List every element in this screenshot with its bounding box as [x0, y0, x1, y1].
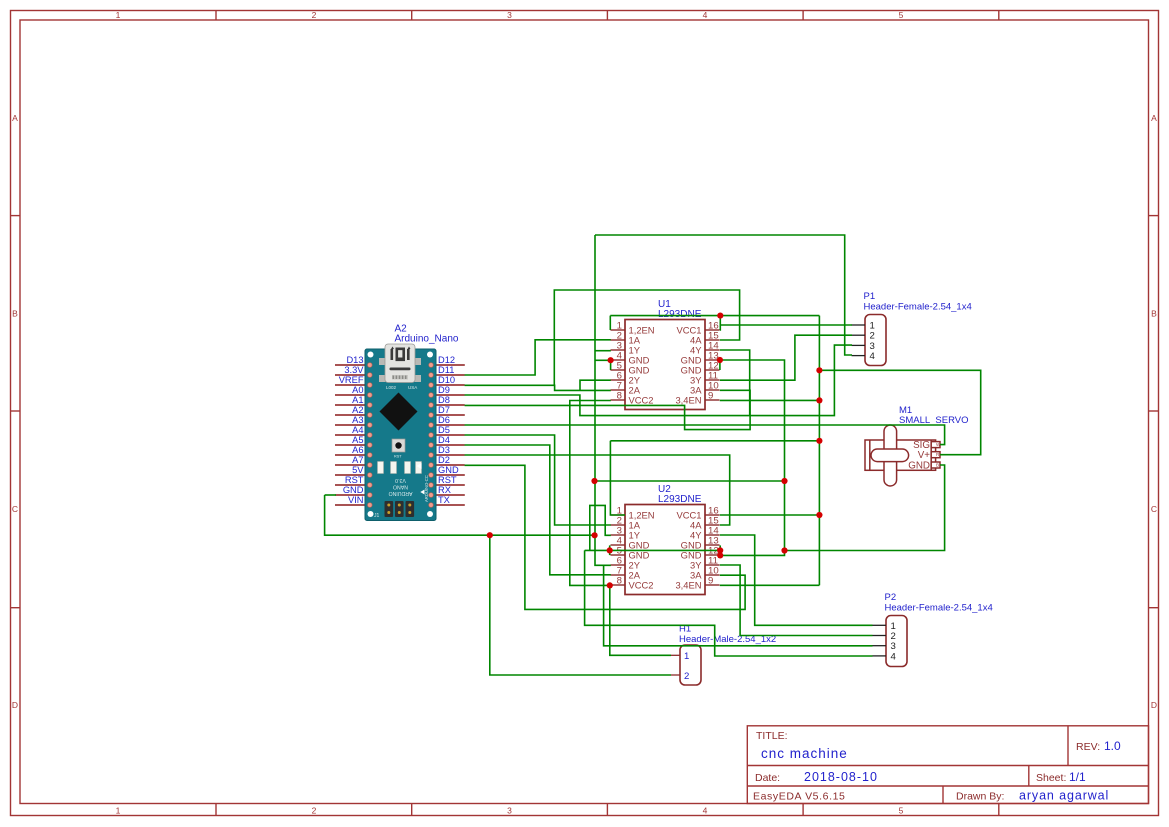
wire U2.13-12 bridge [719, 545, 721, 555]
wire H1.2 drop [490, 535, 671, 675]
wire bus315 [610, 315, 819, 317]
svg-text:V3.0: V3.0 [395, 477, 406, 483]
svg-text:5: 5 [899, 806, 904, 816]
svg-text:P2: P2 [885, 592, 897, 603]
svg-text:3: 3 [507, 10, 512, 20]
wire D9 riser [465, 345, 852, 416]
connector H1 Header-Male-2.54_1x2 [679, 624, 776, 646]
IC U2 pin names [629, 510, 703, 591]
svg-text:5: 5 [899, 10, 904, 20]
svg-text:A6: A6 [352, 445, 363, 455]
svg-text:VCC2: VCC2 [629, 580, 654, 591]
junction U1 pin4 GND [608, 357, 614, 363]
wire U1.4 GND branch [595, 359, 611, 361]
IC U2 pins [611, 515, 720, 585]
svg-text:D8: D8 [438, 395, 450, 405]
svg-text:USA: USA [408, 385, 417, 390]
svg-text:ARDUINO: ARDUINO [389, 490, 413, 496]
wire D2 to U2.10 [465, 465, 745, 609]
svg-text:B: B [936, 462, 939, 467]
wire U2.9 line [720, 584, 820, 586]
svg-text:TX: TX [438, 495, 450, 505]
svg-text:1: 1 [116, 806, 121, 816]
svg-text:4: 4 [870, 351, 876, 362]
wire D6 to M1.SIG [465, 425, 945, 445]
svg-text:D4: D4 [438, 435, 450, 445]
junction GND bus481 right [781, 478, 787, 484]
wire U1.1 riser to VCC bus [609, 316, 611, 330]
IC U1 pin names [629, 325, 703, 406]
svg-text:1: 1 [116, 10, 121, 20]
svg-text:C: C [1151, 504, 1157, 514]
svg-text:TITLE:: TITLE: [756, 730, 788, 742]
Arduino A2 pin stubs and labels [335, 365, 465, 505]
svg-text:ARDUINO-CC: ARDUINO-CC [424, 475, 429, 502]
svg-text:A1: A1 [352, 395, 363, 405]
wire U2.4-5 bridge [609, 545, 611, 555]
svg-text:A0: A0 [352, 385, 363, 395]
connector P2 Header-Female-2.54_1x4 [885, 592, 993, 614]
svg-text:Drawn By:: Drawn By: [956, 791, 1004, 803]
wire D10 to U1.7 [465, 385, 611, 390]
wire U1.12-13 bridge [719, 360, 721, 370]
Arduino A2 pin name labels [339, 355, 459, 505]
wire U2.11 to P2.2 [720, 565, 873, 636]
svg-text:3.3V: 3.3V [344, 365, 364, 375]
svg-text:2: 2 [684, 671, 689, 682]
svg-text:A3: A3 [352, 415, 363, 425]
wire U1.11 to P1.2 [720, 335, 852, 380]
wire U1.16 up [719, 316, 722, 330]
svg-text:2018-08-10: 2018-08-10 [804, 770, 878, 784]
svg-text:A5: A5 [352, 435, 363, 445]
svg-text:C: C [12, 504, 18, 514]
junction VCC/U2 EN line [816, 438, 822, 444]
svg-text:GND: GND [908, 460, 930, 471]
IC U2 body [625, 505, 705, 595]
wire U2.1 drop [610, 441, 625, 515]
junction VCC/U2 pin16 [816, 512, 822, 518]
svg-text:4: 4 [703, 806, 708, 816]
wire U2.3 n-shape [590, 505, 611, 550]
junction VCC2 U2 pin8 [607, 582, 613, 588]
IC U2 reference label [658, 484, 702, 505]
svg-text:D10: D10 [438, 375, 455, 385]
wire EN2 line [610, 440, 819, 442]
Arduino A2 PCB body [365, 344, 436, 521]
svg-text:D13: D13 [346, 355, 363, 365]
svg-text:D2: D2 [438, 455, 450, 465]
svg-text:5V: 5V [352, 465, 364, 475]
svg-text:EasyEDA V5.6.15: EasyEDA V5.6.15 [753, 791, 845, 803]
svg-text:9: 9 [708, 391, 713, 402]
junction GND bus535/V595 [592, 532, 598, 538]
wire U2.16 line [720, 514, 820, 516]
svg-text:VIN: VIN [348, 495, 364, 505]
svg-text:P1: P1 [864, 291, 876, 302]
svg-text:RST: RST [394, 455, 402, 459]
wire D4 to U2.7 [465, 445, 611, 575]
svg-text:GND: GND [438, 465, 459, 475]
wire P2.4 gnd [585, 550, 873, 656]
svg-text:aryan agarwal: aryan agarwal [1019, 789, 1109, 803]
wire V595 main [595, 235, 611, 565]
junction GND bus550 right [781, 547, 787, 553]
wire U2.14 to P2.1 [720, 535, 873, 625]
svg-text:Header-Female-2.54_1x4: Header-Female-2.54_1x4 [864, 302, 972, 313]
svg-text:J1: J1 [374, 513, 380, 519]
junction GND bus550 U2 pin13 [717, 547, 723, 553]
svg-text:8: 8 [617, 391, 622, 402]
svg-text:Arduino_Nano: Arduino_Nano [395, 334, 459, 345]
wire H1.1 drop [610, 585, 671, 655]
wire D3 to U2.15 [465, 455, 730, 525]
svg-text:RST: RST [345, 475, 364, 485]
svg-text:B: B [1151, 309, 1157, 319]
svg-text:1: 1 [684, 651, 689, 662]
wire D8 to U1.10 [465, 390, 750, 429]
IC U1 pin numbers [617, 321, 720, 402]
junction GND U2 pin12 [717, 552, 723, 558]
junction VCC at U1 pin16 [717, 313, 723, 319]
svg-text:A2: A2 [352, 405, 363, 415]
svg-text:D: D [1151, 700, 1157, 710]
IC U1 pins [611, 330, 720, 400]
junction GND bus535/H1 drop [487, 532, 493, 538]
svg-text:A: A [12, 113, 18, 123]
wire D11 to U1.2 [465, 340, 611, 375]
wire U1.9 line [720, 399, 820, 401]
svg-text:GND: GND [343, 485, 364, 495]
connector P1 Header-Female-2.54_1x4 [864, 291, 972, 313]
wire U2.6 to P2.3 [604, 565, 873, 646]
Arduino A2 labels [395, 324, 459, 345]
svg-text:Sheet:: Sheet: [1036, 772, 1066, 784]
IC U1 body [625, 320, 705, 410]
svg-text:VREF: VREF [339, 375, 364, 385]
svg-text:3,4EN: 3,4EN [675, 395, 701, 406]
svg-text:L293DNE: L293DNE [658, 309, 702, 320]
svg-text:2: 2 [312, 10, 317, 20]
svg-text:D5: D5 [438, 425, 450, 435]
svg-text:A7: A7 [352, 455, 363, 465]
svg-text:cnc machine: cnc machine [761, 746, 848, 761]
wire bus235 / P1.4 [595, 235, 852, 355]
junction U1 pin13 GND [717, 357, 723, 363]
wire U1.4-5 bridge [610, 360, 612, 370]
svg-text:A4: A4 [352, 425, 363, 435]
wire gndbus [585, 465, 945, 555]
svg-text:D12: D12 [438, 355, 455, 365]
svg-text:RST: RST [438, 475, 457, 485]
svg-text:A: A [1151, 113, 1157, 123]
svg-text:D3: D3 [438, 445, 450, 455]
wire A2.GND stub [325, 494, 336, 496]
junction GND bus550 U2 pin5 [607, 547, 613, 553]
svg-text:1.0: 1.0 [1104, 739, 1121, 753]
wire bus481 [595, 480, 785, 482]
svg-text:D7: D7 [438, 405, 450, 415]
svg-text:L002: L002 [386, 385, 397, 390]
wire U1.13 line [720, 360, 785, 551]
junction GND bus481 left [591, 478, 597, 484]
wire bus290 [554, 290, 739, 385]
junction VCC/U1 pin9 [816, 397, 822, 403]
wire bus535 [325, 495, 595, 535]
junction VCC/V+ servo [816, 367, 822, 373]
wire U1.14 drop [720, 350, 750, 416]
title block [747, 726, 1148, 804]
svg-text:D11: D11 [438, 365, 454, 375]
svg-text:NANO: NANO [393, 484, 408, 490]
svg-text:Header-Female-2.54_1x4: Header-Female-2.54_1x4 [885, 603, 993, 614]
wire U1.3 branch [595, 350, 611, 352]
svg-text:B: B [12, 309, 18, 319]
wire V+ line [819, 370, 980, 454]
svg-text:D: D [12, 700, 18, 710]
svg-text:VCC2: VCC2 [629, 395, 654, 406]
svg-text:REV:: REV: [1076, 741, 1100, 753]
svg-text:3: 3 [507, 806, 512, 816]
svg-text:2: 2 [312, 806, 317, 816]
svg-text:1/1: 1/1 [1069, 770, 1086, 784]
wire P1.1 [720, 324, 852, 326]
svg-text:8: 8 [617, 576, 622, 587]
svg-text:D9: D9 [438, 385, 450, 395]
motor M1 SMALL_SERVO [899, 405, 969, 426]
svg-text:Date:: Date: [755, 772, 780, 784]
wire VCC2 link [570, 401, 611, 586]
svg-text:4: 4 [891, 651, 897, 662]
wire V819 [818, 316, 820, 586]
IC U1 reference label [658, 299, 702, 320]
svg-text:RX: RX [438, 485, 451, 495]
svg-text:4: 4 [703, 10, 708, 20]
wire U1.6 branch [580, 380, 611, 390]
IC U2 pin numbers [617, 506, 720, 587]
svg-text:D6: D6 [438, 415, 450, 425]
wire D5 to U2.2 [465, 435, 611, 525]
svg-text:9: 9 [708, 576, 713, 587]
svg-text:L293DNE: L293DNE [658, 494, 702, 505]
svg-text:3,4EN: 3,4EN [675, 580, 701, 591]
